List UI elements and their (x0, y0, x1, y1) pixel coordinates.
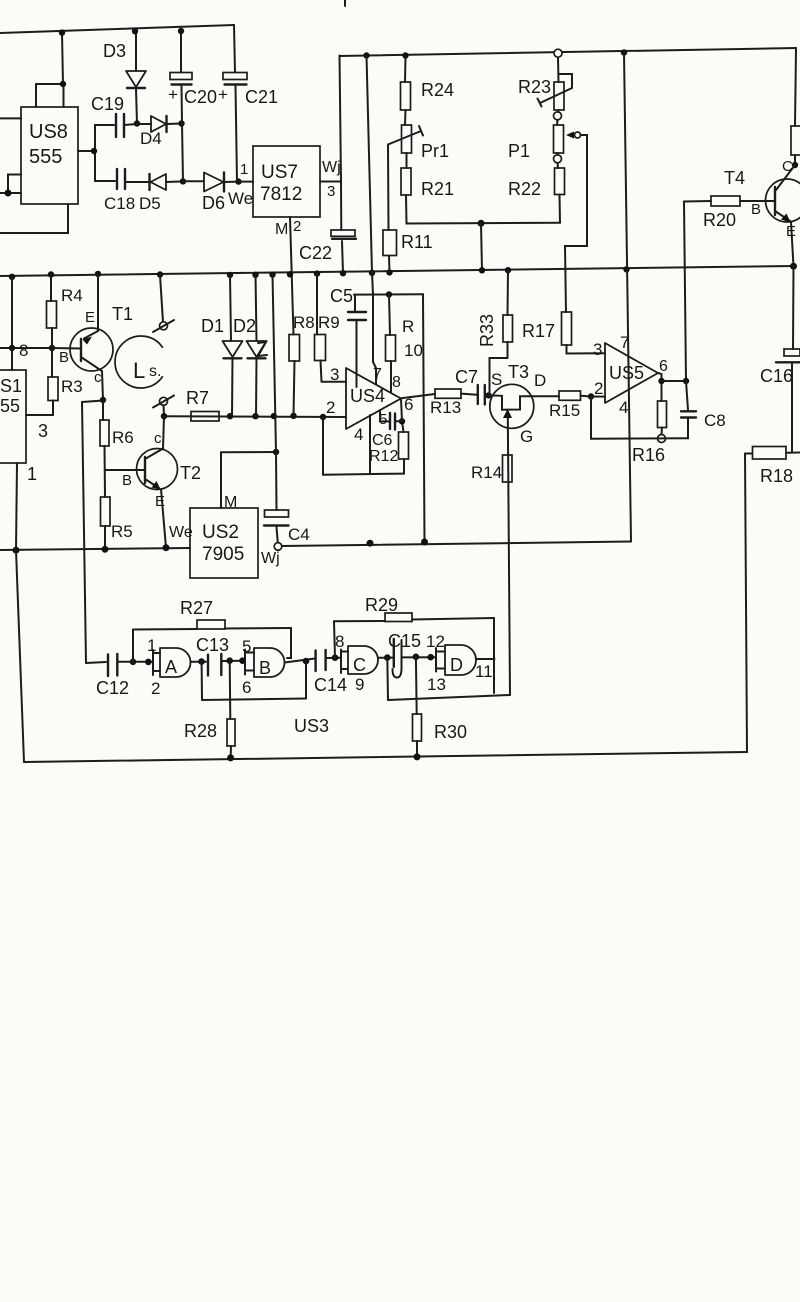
svg-text:3: 3 (593, 340, 602, 359)
svg-text:US2: US2 (202, 522, 239, 543)
svg-text:M: M (275, 221, 288, 238)
svg-text:US8: US8 (29, 121, 68, 143)
svg-text:555: 555 (29, 146, 62, 168)
svg-text:11: 11 (475, 662, 493, 681)
svg-text:D4: D4 (140, 129, 162, 148)
svg-text:4: 4 (619, 398, 628, 417)
svg-text:C: C (353, 655, 366, 675)
svg-text:Wj: Wj (261, 550, 280, 567)
svg-text:M: M (224, 494, 237, 511)
svg-text:c: c (154, 430, 162, 447)
svg-text:G: G (520, 427, 533, 446)
svg-text:C20: C20 (184, 87, 217, 107)
svg-text:C6: C6 (372, 432, 393, 449)
svg-text:C15: C15 (388, 631, 421, 651)
svg-text:B: B (751, 201, 761, 218)
svg-text:R27: R27 (180, 598, 213, 618)
svg-text:R3: R3 (61, 377, 83, 396)
svg-text:R21: R21 (421, 179, 454, 199)
svg-text:6: 6 (659, 358, 668, 375)
svg-text:E: E (786, 223, 796, 240)
svg-text:R8: R8 (293, 313, 315, 332)
svg-text:D6: D6 (202, 193, 225, 213)
svg-text:C21: C21 (245, 87, 278, 107)
svg-text:R9: R9 (318, 313, 340, 332)
svg-text:2: 2 (326, 398, 335, 417)
svg-text:C19: C19 (91, 94, 124, 114)
svg-text:C: C (782, 158, 793, 175)
svg-text:R22: R22 (508, 179, 541, 199)
svg-text:Pr1: Pr1 (421, 141, 449, 161)
svg-text:T3: T3 (508, 362, 529, 382)
svg-text:T2: T2 (180, 463, 201, 483)
svg-text:D2: D2 (233, 316, 256, 336)
svg-text:C22: C22 (299, 243, 332, 263)
svg-text:C16: C16 (760, 366, 793, 386)
svg-text:C14: C14 (314, 675, 347, 695)
svg-text:3: 3 (330, 365, 339, 384)
svg-text:T4: T4 (724, 168, 745, 188)
svg-text:6: 6 (242, 678, 251, 697)
svg-text:55: 55 (0, 396, 20, 416)
svg-text:8: 8 (392, 374, 401, 391)
svg-text:D1: D1 (201, 316, 224, 336)
svg-text:R7: R7 (186, 388, 209, 408)
svg-text:R5: R5 (111, 522, 133, 541)
svg-text:L: L (133, 358, 145, 383)
svg-text:C18: C18 (104, 194, 135, 213)
svg-text:1: 1 (240, 161, 248, 178)
svg-text:C8: C8 (704, 411, 726, 430)
svg-text:E: E (85, 309, 95, 326)
svg-text:3: 3 (327, 183, 335, 200)
svg-text:2: 2 (594, 379, 603, 398)
svg-text:D: D (450, 655, 463, 675)
svg-text:R15: R15 (549, 401, 580, 420)
svg-text:R: R (402, 317, 414, 336)
svg-text:D5: D5 (139, 194, 161, 213)
svg-text:7905: 7905 (202, 544, 244, 565)
svg-text:1: 1 (147, 636, 156, 655)
svg-text:R23: R23 (518, 77, 551, 97)
svg-text:c: c (94, 369, 102, 386)
svg-text:Wj: Wj (322, 159, 341, 176)
svg-text:C12: C12 (96, 678, 129, 698)
svg-text:R11: R11 (401, 232, 433, 252)
svg-text:1: 1 (27, 464, 37, 484)
svg-text:US5: US5 (609, 363, 644, 383)
svg-text:R24: R24 (421, 80, 454, 100)
svg-text:R33: R33 (477, 314, 497, 347)
svg-text:C4: C4 (288, 525, 310, 544)
svg-text:R28: R28 (184, 721, 217, 741)
svg-text:We: We (228, 189, 253, 208)
svg-text:D3: D3 (103, 41, 126, 61)
svg-text:US3: US3 (294, 716, 329, 736)
svg-text:R30: R30 (434, 722, 467, 742)
svg-text:P1: P1 (508, 141, 530, 161)
svg-text:E: E (155, 493, 165, 510)
svg-text:R17: R17 (522, 321, 555, 341)
svg-text:+: + (218, 85, 228, 104)
svg-text:D: D (534, 371, 546, 390)
svg-text:7812: 7812 (260, 184, 302, 205)
svg-text:T1: T1 (112, 304, 133, 324)
svg-text:R12: R12 (369, 448, 398, 465)
svg-text:R16: R16 (632, 445, 665, 465)
svg-text:R18: R18 (760, 466, 793, 486)
svg-text:8: 8 (19, 341, 28, 360)
svg-text:R14: R14 (471, 463, 502, 482)
svg-text:5: 5 (242, 637, 251, 656)
svg-text:4: 4 (354, 425, 363, 444)
svg-text:We: We (169, 524, 193, 541)
svg-text:12: 12 (426, 632, 445, 651)
svg-text:R20: R20 (703, 210, 736, 230)
svg-text:R29: R29 (365, 595, 398, 615)
svg-text:2: 2 (151, 679, 160, 698)
svg-text:B: B (122, 472, 132, 489)
svg-text:C5: C5 (330, 286, 353, 306)
svg-text:R6: R6 (112, 428, 134, 447)
svg-text:C7: C7 (455, 367, 478, 387)
svg-text:B: B (259, 658, 271, 678)
svg-text:13: 13 (427, 675, 446, 694)
svg-text:8: 8 (335, 632, 344, 651)
svg-text:A: A (165, 657, 177, 677)
svg-text:2: 2 (293, 218, 301, 235)
svg-text:R13: R13 (430, 398, 461, 417)
svg-text:B: B (59, 349, 69, 366)
svg-text:10: 10 (404, 341, 423, 360)
svg-text:S1: S1 (0, 376, 22, 396)
svg-text:3: 3 (38, 421, 48, 441)
svg-text:US7: US7 (261, 162, 298, 183)
svg-text:9: 9 (355, 675, 364, 694)
svg-text:7: 7 (373, 366, 382, 383)
svg-text:C13: C13 (196, 635, 229, 655)
svg-text:R4: R4 (61, 286, 83, 305)
svg-text:S: S (491, 370, 502, 389)
svg-text:US4: US4 (350, 386, 385, 406)
svg-text:s.: s. (149, 363, 161, 380)
svg-text:+: + (168, 85, 178, 104)
